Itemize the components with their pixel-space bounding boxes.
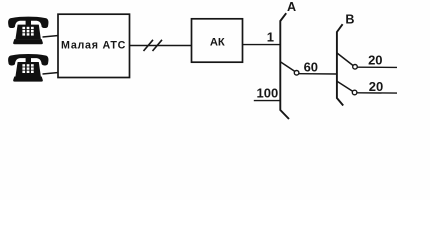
wire AK to frame A	[243, 44, 281, 46]
telephone TA1	[8, 17, 48, 45]
svg-text:В: В	[345, 12, 354, 26]
wire 20 upper	[357, 66, 397, 68]
svg-text:АК: АК	[210, 36, 225, 48]
contact circle B2	[352, 90, 357, 95]
svg-text:А: А	[287, 0, 296, 14]
frame A	[280, 13, 289, 119]
box Малая АТС	[58, 14, 130, 77]
wire TA2 to ATS box	[43, 73, 59, 75]
svg-text:100: 100	[256, 85, 278, 100]
contact circle B1	[353, 65, 358, 70]
break mark (double slash)	[144, 40, 163, 51]
wire 60 from A to B	[299, 73, 337, 75]
wire 20 lower	[357, 92, 397, 94]
frame B	[337, 24, 343, 105]
contact arm B1	[337, 53, 353, 66]
wire 100 into A	[254, 100, 280, 102]
wire ATS to AK	[130, 45, 192, 47]
svg-text:20: 20	[369, 79, 383, 94]
telephone TA2	[8, 54, 48, 82]
svg-text:60: 60	[304, 60, 318, 75]
svg-text:20: 20	[368, 52, 382, 67]
contact circle A	[294, 71, 299, 76]
contact arm A	[280, 62, 295, 72]
contact arm B2	[337, 81, 353, 91]
svg-text:Малая АТС: Малая АТС	[61, 39, 126, 51]
box AK	[192, 19, 243, 62]
wire TA1 to ATS box	[43, 36, 59, 38]
svg-text:1: 1	[267, 29, 274, 44]
